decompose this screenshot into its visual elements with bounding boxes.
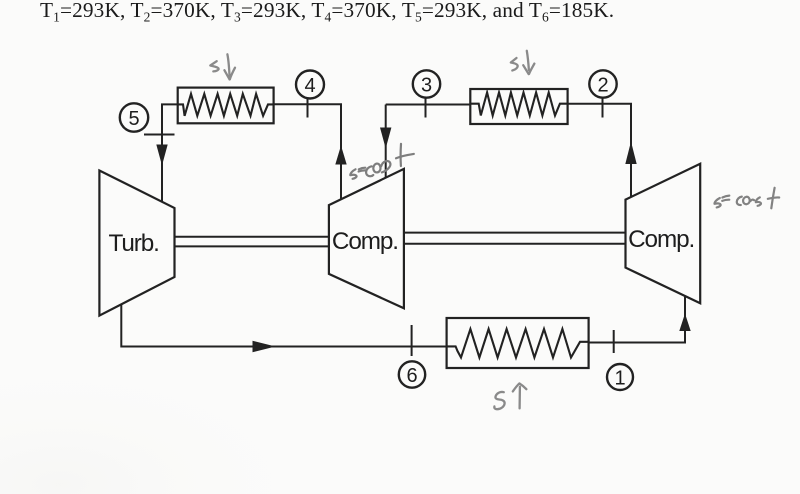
svg-text:1: 1 (614, 367, 625, 389)
svg-text:Comp.: Comp. (628, 226, 694, 253)
svg-text:Comp.: Comp. (332, 228, 398, 255)
svg-text:4: 4 (304, 75, 315, 97)
svg-text:2: 2 (597, 74, 608, 96)
svg-text:Turb.: Turb. (109, 230, 159, 257)
svg-text:5: 5 (128, 108, 139, 130)
svg-text:3: 3 (421, 74, 432, 96)
svg-text:6: 6 (406, 365, 417, 387)
